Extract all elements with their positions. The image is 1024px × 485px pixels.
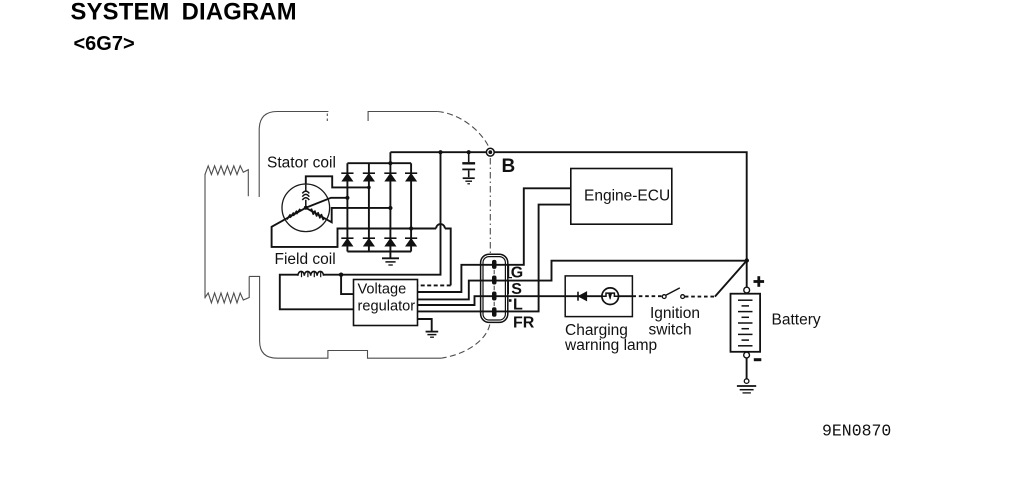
wire phase 3 continues down to regulator — [445, 229, 451, 286]
rectifier diode D1 (col1 top) — [341, 173, 353, 181]
wire rectifier column 1 — [346, 163, 348, 251]
node field coil junction — [339, 273, 343, 277]
outline dash-dot through B down to connector — [489, 158, 491, 254]
ground (battery) — [737, 386, 756, 393]
ground (capacitor) — [463, 178, 475, 184]
svg-text:9EN0870: 9EN0870 — [822, 422, 891, 441]
outline dash marks inside connector — [493, 270, 495, 306]
wire rectifier column 4 — [410, 163, 412, 251]
svg-text:regulator: regulator — [358, 299, 416, 315]
svg-text:SYSTEM DIAGRAM: SYSTEM DIAGRAM — [71, 0, 297, 25]
svg-text:G: G — [511, 265, 523, 282]
Engine-ECU box — [571, 169, 672, 225]
node B-line / capacitor junction — [467, 150, 471, 154]
rectifier diode D4 (col4 top) — [405, 173, 417, 181]
wire switch diagonal to battery junction — [715, 261, 747, 297]
stator winding lower-left coil hatch — [287, 209, 300, 220]
wire stator phase 2 to column 3 — [306, 208, 391, 223]
rectifier diode D7 (col3 bottom) — [384, 238, 396, 246]
wire lamp through — [565, 295, 632, 297]
wire rectifier cathode bus — [347, 162, 411, 164]
diode D9 (in lamp box) — [578, 292, 587, 301]
field coil L1 — [298, 271, 324, 277]
node phase3 / column 4 junction — [409, 226, 413, 230]
wire regulator ground lead — [418, 319, 432, 331]
rectifier diode D6 (col2 bottom) — [363, 238, 375, 246]
outline arc to B terminal — [438, 112, 489, 147]
wire S row to battery junction — [481, 261, 747, 281]
wire field junction to regulator — [341, 275, 353, 294]
wire rectifier anode bus — [347, 251, 411, 253]
rectifier diode D8 (col4 bottom) — [405, 238, 417, 246]
component labels — [267, 154, 821, 354]
outline bottom edge with step — [249, 276, 441, 358]
case tear zigzag top — [205, 166, 248, 197]
battery BT1 — [731, 287, 761, 358]
wire field coil right lead — [324, 274, 342, 276]
node B-line / B-branch junction — [438, 150, 442, 154]
stator coil circle — [282, 184, 330, 232]
wire regulator FR to connector — [418, 310, 481, 312]
connector (alternator 4-pin) — [481, 254, 508, 322]
wire stator phase 1 to column 2 — [306, 176, 369, 187]
wire FR row to Engine-ECU — [481, 205, 571, 312]
connector pin G — [492, 260, 497, 269]
capacitor C1 — [462, 152, 475, 177]
svg-text:Stator coil: Stator coil — [267, 154, 336, 171]
terminal B node — [486, 148, 494, 156]
battery ground terminal — [744, 379, 749, 384]
svg-text:Voltage: Voltage — [358, 282, 407, 298]
outline break tick — [326, 114, 328, 123]
wire stator neutral to column 1 — [306, 198, 348, 208]
wire regulator G to connector — [418, 265, 481, 292]
node stator star point — [304, 206, 308, 210]
case tear zigzag bottom — [205, 276, 249, 302]
node phase2 / column 3 junction — [388, 206, 392, 210]
wire phase feed into regulator (broken) — [418, 284, 451, 286]
wire lamp to ignition switch (harness) — [632, 295, 662, 297]
battery plus label — [754, 276, 765, 287]
svg-text:Ignition: Ignition — [650, 305, 700, 322]
rectifier diode D3 (col3 top) — [384, 173, 396, 181]
svg-text:Field coil: Field coil — [275, 251, 336, 268]
outline top-right segment — [368, 112, 438, 122]
svg-text:switch: switch — [649, 322, 692, 339]
svg-text:Battery: Battery — [772, 312, 821, 329]
svg-text:<6G7>: <6G7> — [74, 33, 135, 55]
wire battery negative to ground — [746, 358, 748, 379]
lamp (charging warning lamp) — [602, 288, 619, 305]
wire stator phase 3 to column 4 and regulator — [272, 208, 437, 247]
wire regulator L to connector — [418, 296, 481, 305]
JUNCTION DOTS — [304, 150, 749, 277]
svg-text:FR: FR — [513, 315, 535, 332]
MAIN WIRES — [272, 152, 747, 379]
pin S leader stub — [507, 282, 509, 295]
ground (voltage regulator) — [426, 332, 439, 338]
stator winding top coil — [302, 185, 309, 208]
wire rectifier column 2 — [368, 163, 370, 251]
battery minus label — [754, 358, 762, 361]
stator winding lower-right coil hatch — [311, 209, 323, 221]
node mark near pin L — [509, 299, 512, 302]
alternator outline — [205, 112, 490, 359]
ignition switch SW1 — [662, 288, 684, 299]
ground (rectifier) — [382, 258, 399, 265]
wire hop over B branch — [436, 224, 445, 228]
svg-text:Engine-ECU: Engine-ECU — [584, 188, 670, 205]
connector pin S — [492, 276, 497, 285]
pin G leader stub — [509, 265, 512, 278]
wire switch to diagonal — [685, 296, 715, 298]
charging warning lamp box — [565, 276, 632, 317]
case left edge — [204, 174, 206, 299]
svg-text:warning lamp: warning lamp — [564, 337, 657, 354]
outline curve connector bottom to case bottom — [441, 325, 490, 359]
connector pin L — [492, 292, 497, 301]
outline top-left segment — [259, 112, 328, 198]
wire G row to Engine-ECU — [481, 188, 571, 264]
node bus / column 3 junction — [388, 161, 392, 165]
wire B+ bus to battery — [390, 152, 746, 287]
node neutral / column 1 junction — [345, 196, 349, 200]
wire B branch to field coil — [341, 152, 440, 275]
rectifier diode D2 (col2 top) — [363, 173, 375, 181]
svg-text:B: B — [502, 156, 516, 177]
wire regulator S to connector — [418, 281, 481, 300]
voltage regulator U1 box — [354, 280, 418, 326]
wire field coil left lead to regulator — [280, 275, 354, 310]
wire L row to warning lamp — [481, 295, 566, 297]
rectifier diode D5 (col1 bottom) — [341, 238, 353, 246]
wire rectifier column 3 — [389, 152, 391, 257]
connector pin FR — [492, 307, 497, 316]
node phase1 / column 2 junction — [367, 186, 371, 190]
node battery junction — [745, 258, 749, 262]
